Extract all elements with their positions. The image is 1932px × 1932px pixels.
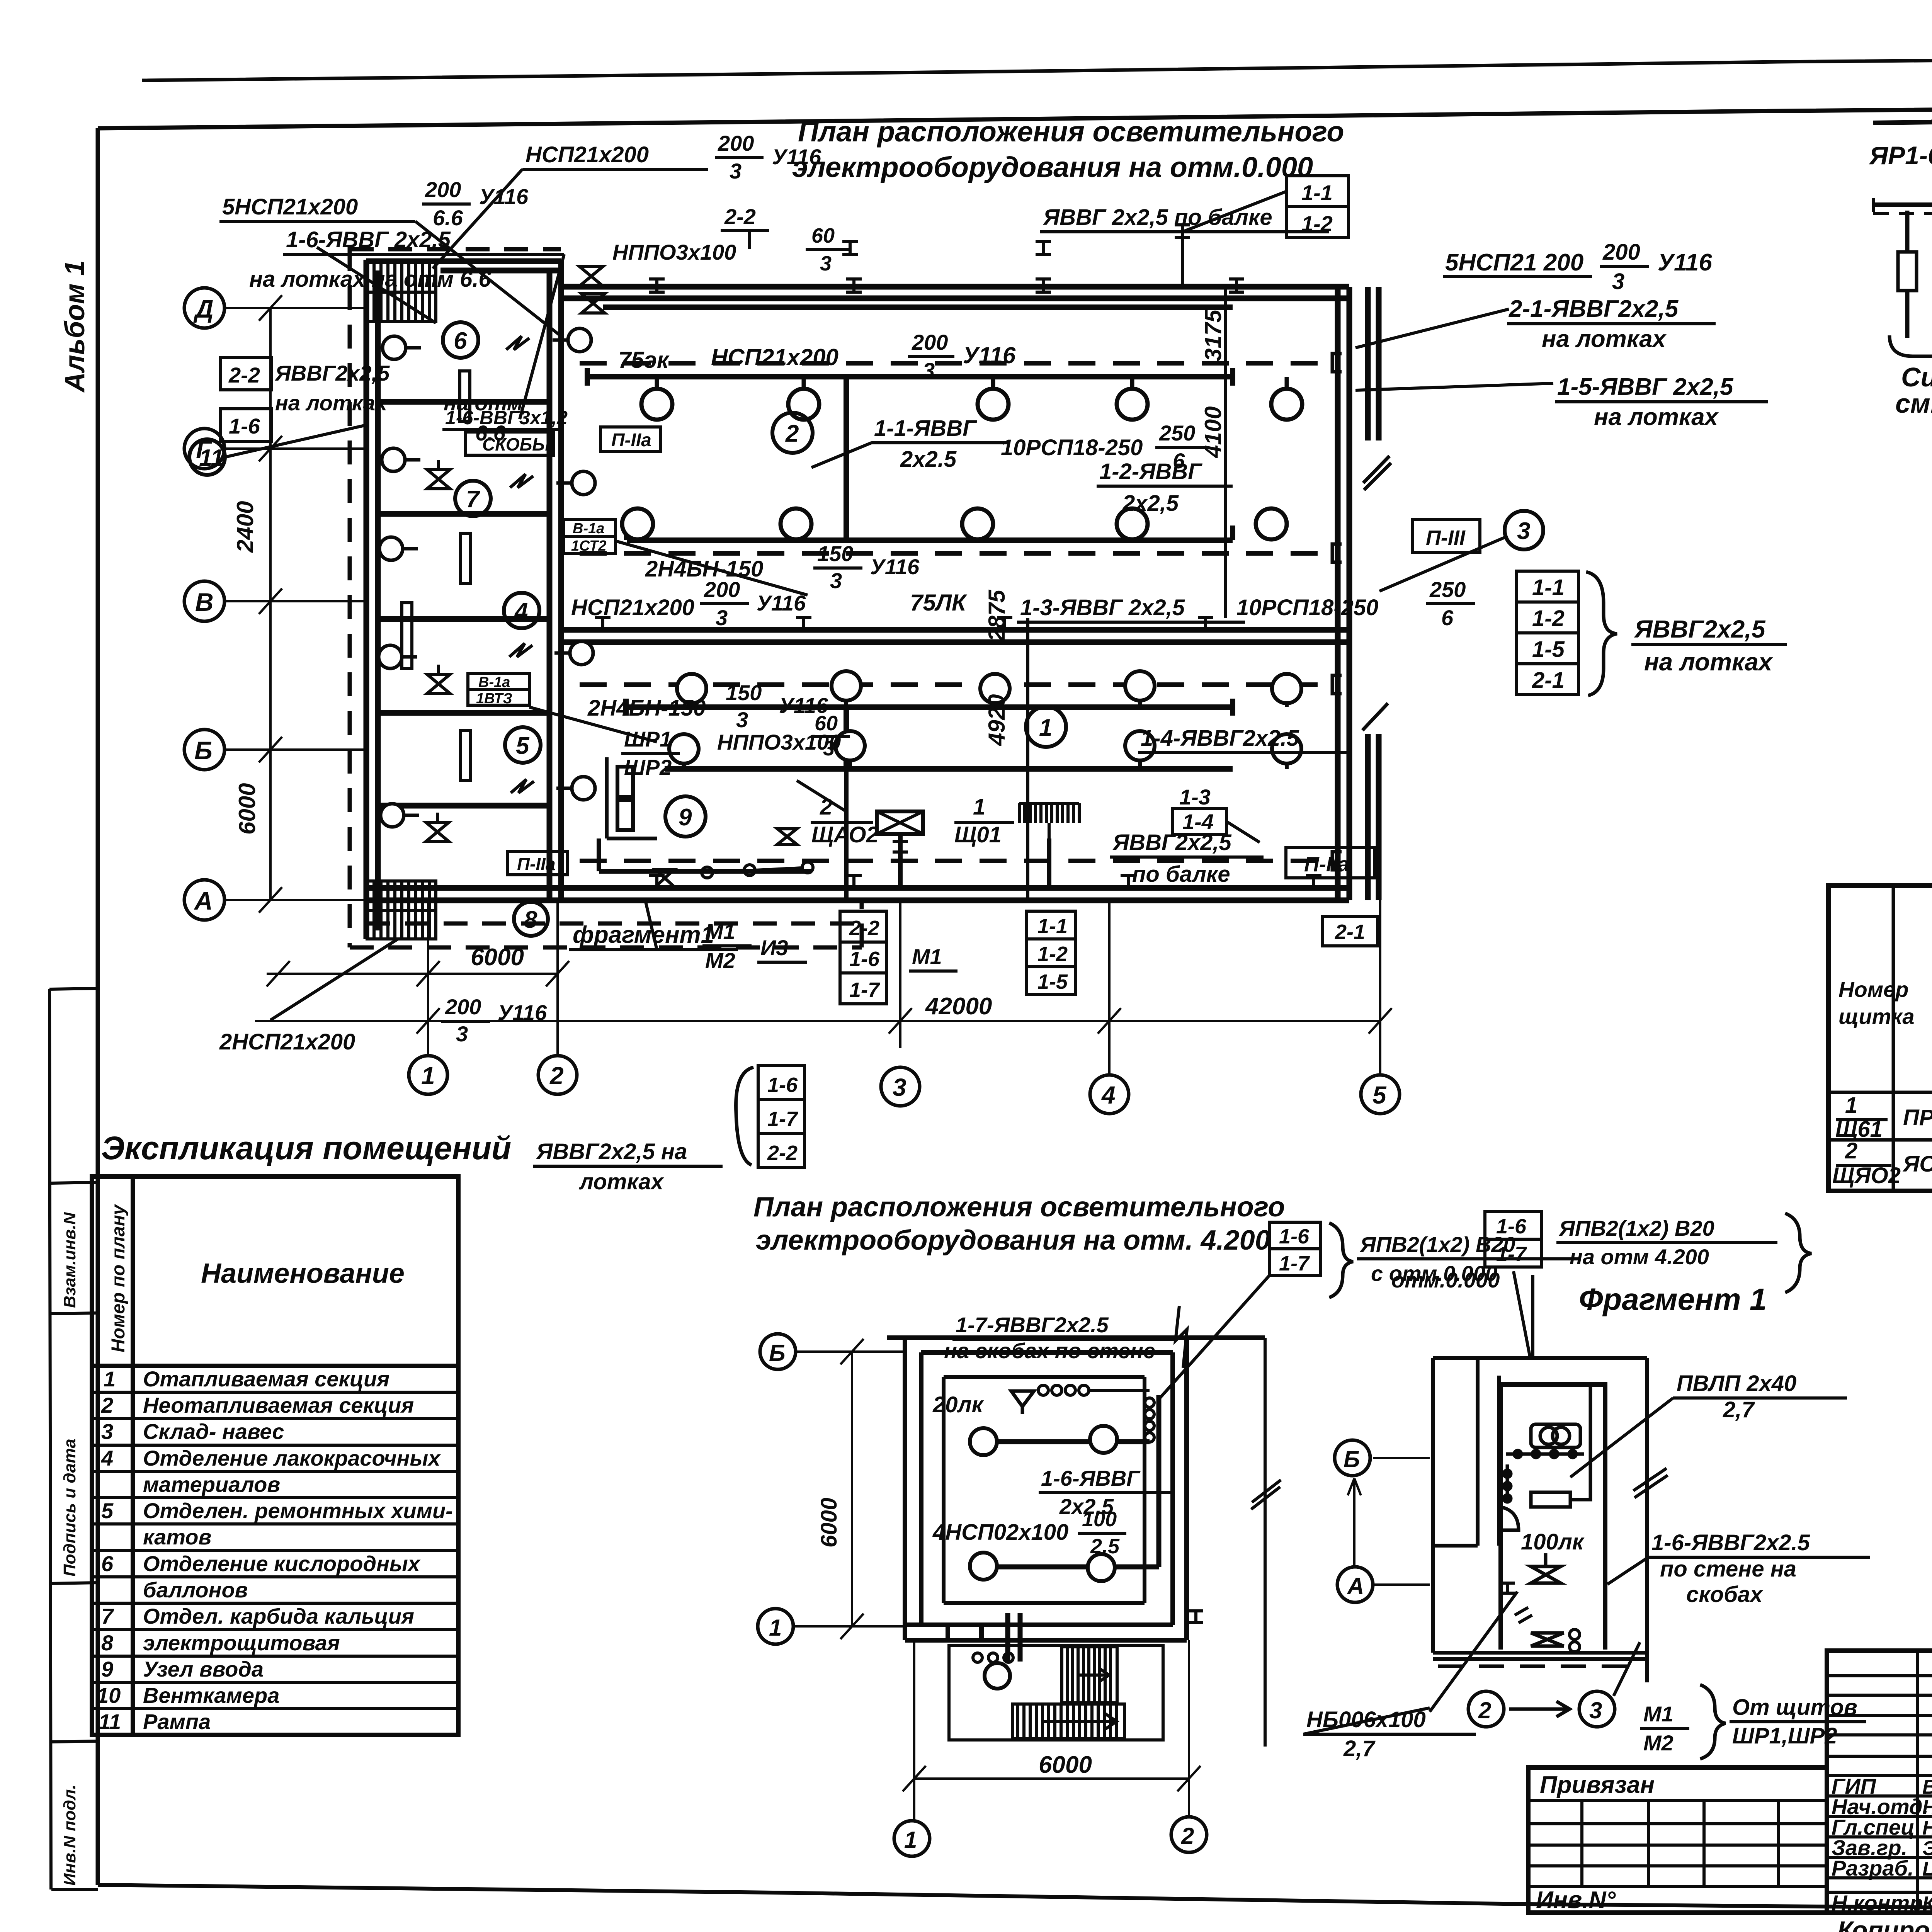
svg-text:материалов: материалов [143,1472,280,1497]
svg-text:1-6: 1-6 [767,1073,798,1097]
П-боксы in hall [600,427,661,451]
svg-text:НСП21х200: НСП21х200 [571,595,694,620]
svg-text:2: 2 [1181,1823,1194,1849]
svg-text:В-1а: В-1а [573,520,604,537]
svg-text:1: 1 [1039,714,1052,741]
svg-text:Щ61: Щ61 [1835,1117,1883,1142]
svg-text:ЯПВ2(1х2) В20: ЯПВ2(1х2) В20 [1558,1216,1714,1240]
svg-text:1-3: 1-3 [1179,785,1211,809]
svg-text:3: 3 [923,358,935,383]
svg-text:1-4-ЯВВГ2х2.5: 1-4-ЯВВГ2х2.5 [1141,726,1299,751]
leader from 1-6/1-7 to room [1159,1275,1270,1399]
svg-text:1: 1 [1845,1093,1857,1118]
svg-text:8: 8 [524,906,537,933]
svg-text:ЯВВГ2х2,5: ЯВВГ2х2,5 [1634,615,1766,643]
svg-text:150: 150 [817,541,853,566]
strip lamps on wall [379,328,595,827]
svg-text:Номер: Номер [1838,977,1908,1002]
svg-text:1-7-ЯВВГ2х2.5: 1-7-ЯВВГ2х2.5 [956,1313,1109,1337]
inner room thick wiring [997,1395,1159,1662]
hatched blocks top-left / bottom-left (stairs) [367,263,436,939]
vertical dim axes in hall [1028,287,1226,900]
lamps [970,1426,1117,1689]
svg-text:А: А [194,886,213,915]
svg-text:250: 250 [1159,421,1195,445]
svg-text:5НСП21 200: 5НСП21 200 [1445,249,1583,276]
svg-text:Узел ввода: Узел ввода [143,1657,264,1681]
svg-text:6: 6 [454,328,467,354]
svg-text:1-7: 1-7 [1279,1252,1310,1275]
inner equipment box [1501,1384,1605,1650]
svg-text:П-III: П-III [1426,526,1466,549]
svg-text:200: 200 [718,131,754,155]
svg-text:Силовые нагрузки: Силовые нагрузки [1901,362,1932,392]
svg-text:М1: М1 [912,944,942,969]
bottom dashed [1438,1665,1640,1668]
svg-text:ЯВВГ2х2,5 на: ЯВВГ2х2,5 на [536,1139,687,1164]
svg-text:Неотапливаемая секция: Неотапливаемая секция [143,1393,414,1417]
svg-text:3: 3 [823,737,835,760]
svg-text:отм.0.000: отм.0.000 [1391,1268,1500,1292]
svg-text:НСП21х200: НСП21х200 [711,344,838,370]
svg-text:60: 60 [815,712,838,735]
svg-text:План расположения осветитель: План расположения осветительного [798,116,1344,148]
svg-text:6.6: 6.6 [475,421,506,445]
rampa dashed outline [350,247,862,947]
right break [1633,1468,1668,1498]
svg-text:5НСП21х200: 5НСП21х200 [222,194,358,219]
svg-text:1-1-ЯВВГ: 1-1-ЯВВГ [874,416,977,441]
svg-text:1-6-ЯВВГ2х2.5: 1-6-ЯВВГ2х2.5 [1651,1530,1810,1555]
svg-text:Рампа: Рампа [143,1709,211,1734]
svg-text:1-6: 1-6 [1496,1215,1527,1238]
break marks right [1362,456,1391,730]
svg-text:ПВЛП 2х40: ПВЛП 2х40 [1677,1371,1796,1396]
svg-text:электрооборудования на отм. 4: электрооборудования на отм. 4.200 [756,1225,1270,1256]
svg-text:Инв.N°: Инв.N° [1536,1887,1616,1913]
strip right wall [549,261,561,900]
svg-text:2,7: 2,7 [1723,1397,1755,1422]
svg-text:Разраб.: Разраб. [1832,1856,1914,1880]
svg-text:ЯПВ2(1х2) В20: ЯПВ2(1х2) В20 [1359,1232,1515,1257]
label cluster right of title [1270,1222,1320,1276]
svg-text:7: 7 [101,1604,114,1628]
svg-text:на скобах по стене: на скобах по стене [944,1338,1155,1363]
vertical rect fixtures in strip [402,371,471,781]
middle signature grid [1827,1676,1932,1892]
svg-text:2-2: 2-2 [767,1141,798,1165]
svg-text:У116: У116 [757,591,806,615]
svg-text:2,7: 2,7 [1343,1736,1376,1761]
svg-text:60: 60 [811,224,835,247]
svg-text:см. чертежи марки: см. чертежи марки [1895,388,1932,418]
svg-text:1: 1 [904,1827,917,1853]
svg-text:У116: У116 [963,342,1016,368]
svg-text:ЯВВГ2х2,5: ЯВВГ2х2,5 [1112,830,1232,855]
svg-text:электрооборудования на отм.0.: электрооборудования на отм.0.000 [792,151,1313,183]
svg-text:Номер по плану: Номер по плану [108,1204,129,1352]
left strip outer wall [366,260,378,939]
svg-text:6000: 6000 [1039,1752,1092,1778]
I-beam ticks along walls [595,279,1321,888]
svg-text:2: 2 [785,420,799,447]
svg-text:100лк: 100лк [1521,1529,1585,1554]
svg-text:Г: Г [196,435,213,464]
grid circles [758,1334,1373,1856]
svg-text:Подпись и дата: Подпись и дата [60,1439,79,1577]
svg-text:В-1а: В-1а [478,674,510,690]
svg-text:щитка: щитка [1838,1004,1915,1029]
svg-text:Б: Б [769,1340,785,1366]
svg-text:на лотках: на лотках [1644,648,1773,676]
paper edge top [142,54,1932,80]
svg-text:Наименование: Наименование [201,1258,405,1289]
svg-text:ШР1: ШР1 [624,727,672,751]
svg-text:75эк: 75эк [618,347,670,373]
svg-text:2: 2 [1478,1697,1491,1723]
svg-text:ШР2: ШР2 [624,755,672,779]
svg-text:75ЛК: 75ЛК [910,590,968,616]
bottom panels [777,829,797,844]
svg-text:Отделение кислородных: Отделение кислородных [143,1551,421,1576]
svg-text:3: 3 [716,605,728,630]
building walls [366,260,1379,939]
svg-text:1-3-ЯВВГ 2х2,5: 1-3-ЯВВГ 2х2,5 [1020,595,1185,620]
svg-text:1-6: 1-6 [849,947,880,971]
svg-text:Венткамера: Венткамера [143,1683,279,1708]
label cluster left of schematic [1355,240,1787,696]
svg-text:на отм 4.200: на отм 4.200 [1570,1245,1709,1269]
svg-text:2-2: 2-2 [724,204,756,229]
svg-text:1: 1 [421,1062,435,1090]
brace: ШР1 power loads group [1889,335,1932,367]
svg-text:200: 200 [704,577,740,602]
svg-text:ЯВВГ2х2,5: ЯВВГ2х2,5 [274,361,390,385]
svg-text:2400: 2400 [232,501,258,553]
leader from НБ label [1430,1592,1517,1712]
svg-text:Б: Б [1344,1446,1360,1472]
svg-text:электрощитовая: электрощитовая [143,1631,340,1655]
svg-text:Щ01: Щ01 [954,822,1002,847]
svg-text:на лотках: на лотках [275,391,388,415]
right wall [1338,287,1349,900]
svg-text:Фрагмент 1: Фрагмент 1 [1579,1282,1767,1316]
mid wall [561,630,1349,642]
section 1 wires and lamps [626,699,1233,769]
svg-text:1-7: 1-7 [849,978,881,1002]
svg-text:на лотках: на лотках [1542,326,1667,352]
svg-text:Альбом 1: Альбом 1 [60,260,90,393]
svg-text:лотках: лотках [578,1169,665,1194]
svg-text:Отдел. карбида кальция: Отдел. карбида кальция [143,1604,414,1628]
svg-text:3: 3 [1589,1697,1602,1723]
svg-text:10РСП18-250: 10РСП18-250 [1001,435,1143,460]
bottom small symbols: bowties, circles [656,862,813,886]
panel with two circles [1501,1384,1590,1530]
svg-text:М1: М1 [705,919,735,944]
svg-text:Привязан: Привязан [1540,1772,1655,1798]
svg-text:ЯОУ8501- 54УЗ: ЯОУ8501- 54УЗ [1902,1151,1932,1177]
svg-text:1-2: 1-2 [1532,606,1565,631]
svg-text:3175: 3175 [1200,309,1226,361]
svg-text:ЯР1-63: ЯР1-63 [1869,141,1932,170]
svg-text:1-5: 1-5 [1037,970,1068,993]
svg-text:Нижник: Нижник [1922,1796,1932,1819]
strip room dividers [378,402,549,806]
svg-text:200: 200 [1602,240,1640,265]
fuses: seven ШР1 branch fuses [1898,252,1932,291]
busbar ШР1 (ШР11-73701-22УЗ) [1873,202,1932,207]
switch zigzags in strip [506,336,534,793]
svg-text:6: 6 [101,1551,114,1576]
svg-text:3: 3 [820,252,832,275]
svg-text:Котенко: Котенко [1922,1893,1932,1915]
svg-text:4НСП02х100: 4НСП02х100 [932,1520,1068,1545]
svg-text:1-2: 1-2 [1037,942,1068,966]
svg-text:8: 8 [101,1631,114,1655]
svg-text:по балке: по балке [1132,862,1230,887]
valves [1531,1553,1561,1583]
svg-text:2.5: 2.5 [1090,1535,1120,1558]
svg-text:10РСП18-250: 10РСП18-250 [1236,595,1378,620]
svg-text:Склад- навес: Склад- навес [143,1419,284,1444]
svg-text:1: 1 [104,1367,116,1391]
svg-text:2: 2 [1845,1138,1857,1163]
svg-text:П-IIа: П-IIа [1304,853,1349,876]
svg-text:От щитов: От щитов [1732,1695,1857,1720]
svg-text:1-6-ЯВВГ 2х2,5: 1-6-ЯВВГ 2х2,5 [286,227,451,252]
svg-text:3: 3 [101,1419,113,1444]
svg-text:У116: У116 [1658,249,1712,276]
svg-text:10: 10 [97,1683,121,1708]
svg-text:6: 6 [1441,605,1454,630]
svg-text:баллонов: баллонов [143,1578,248,1602]
dashed line end brackets [1332,354,1342,870]
leader diagonals [317,247,436,323]
hall top wall double [561,287,1349,298]
svg-text:42000: 42000 [925,993,992,1020]
svg-text:3: 3 [830,568,842,593]
svg-text:1-2-ЯВВГ: 1-2-ЯВВГ [1099,459,1202,484]
svg-text:20лк: 20лк [932,1392,984,1417]
svg-text:4: 4 [101,1446,113,1470]
svg-text:на лотках: на лотках [1594,404,1719,430]
svg-text:2: 2 [549,1062,564,1090]
svg-text:6.6: 6.6 [433,206,463,230]
svg-text:У116: У116 [498,1000,547,1025]
box stack 1-1/1-2/1-5/2-1 with brace [1517,571,1578,695]
svg-text:на лотках на отм 6.6: на лотках на отм 6.6 [249,267,491,292]
svg-text:200: 200 [445,995,481,1019]
svg-text:1ВТЗ: 1ВТЗ [476,690,512,707]
walls [1433,1358,1647,1682]
svg-text:А: А [1347,1573,1364,1599]
bottom wall [366,888,1349,900]
svg-text:100: 100 [1082,1508,1117,1531]
svg-text:2: 2 [101,1393,113,1417]
svg-text:ПР11-3052-54УЗ: ПР11-3052-54УЗ [1903,1105,1932,1130]
svg-text:3: 3 [736,707,748,732]
svg-text:6: 6 [1173,449,1185,473]
wires: seven ШР1 branch circuits [1907,211,1932,338]
svg-text:2-1: 2-1 [1335,920,1365,944]
svg-text:9: 9 [101,1657,113,1681]
svg-text:У116: У116 [870,554,920,579]
svg-text:3: 3 [730,159,742,183]
svg-text:Отапливаемая секция: Отапливаемая секция [143,1367,389,1391]
svg-text:катов: катов [143,1525,211,1549]
svg-text:6000: 6000 [816,1498,842,1548]
left appendix rows/cols [1528,1801,1827,1886]
svg-text:2НСП21х200: 2НСП21х200 [219,1029,355,1054]
strip top [366,261,561,270]
hall dashed group lines [580,363,1333,861]
svg-text:1-1: 1-1 [1532,575,1565,600]
svg-text:2-2: 2-2 [228,363,260,387]
svg-text:М1: М1 [1643,1702,1673,1726]
svg-text:Ценяк: Ценяк [1922,1858,1932,1880]
svg-text:Отделен. ремонтных хими-: Отделен. ремонтных хими- [143,1498,453,1523]
hatched panel Щ01 comb [1019,803,1079,838]
svg-text:11: 11 [99,1709,121,1734]
svg-text:1-6-ЯВВГ: 1-6-ЯВВГ [1041,1466,1141,1490]
bottom circles and arrow [1468,1691,1615,1727]
svg-text:2-2: 2-2 [849,917,879,940]
svg-text:150: 150 [726,680,762,705]
svg-text:1: 1 [973,794,985,820]
svg-text:6000: 6000 [234,783,260,835]
uzel vvoda cabinets [607,757,657,838]
svg-text:И3: И3 [760,935,788,960]
svg-text:У116: У116 [772,145,821,169]
fragment top label cluster [1485,1211,1542,1267]
svg-text:скобах: скобах [1686,1582,1764,1607]
svg-text:Н.контр.: Н.контр. [1832,1891,1929,1915]
svg-text:3: 3 [1517,518,1530,544]
svg-text:2х2,5: 2х2,5 [1122,491,1179,516]
svg-text:Б: Б [194,736,213,765]
svg-text:Экспликация помещений: Экспликация помещений [101,1130,511,1166]
svg-text:НППО3х100: НППО3х100 [612,240,736,264]
svg-text:НСП21х200: НСП21х200 [526,142,649,167]
bottom column axes [255,900,1392,1075]
svg-text:Копировал: Чистоклет: Копировал: Чистоклет [1837,1916,1932,1932]
svg-text:1СТ2: 1СТ2 [571,538,606,554]
svg-text:1-1: 1-1 [1037,915,1068,938]
inner frame [98,104,1932,128]
svg-text:200: 200 [912,330,948,354]
bowtie valves in strip [426,460,450,842]
svg-text:4: 4 [1101,1081,1116,1109]
svg-text:4920: 4920 [984,694,1010,746]
funnel + hook circles [1011,1391,1034,1414]
svg-text:1-5: 1-5 [1532,637,1565,662]
left margin column [49,988,98,1889]
svg-text:Нозратенко: Нозратенко [1922,1817,1932,1839]
svg-text:1-1: 1-1 [1301,180,1333,205]
svg-text:9: 9 [679,804,692,831]
svg-text:М2: М2 [705,948,735,973]
svg-text:6000: 6000 [471,944,524,971]
svg-text:1-6: 1-6 [1279,1225,1310,1248]
svg-text:1-6: 1-6 [229,414,260,438]
section 2 wires and lamps [587,307,1233,540]
svg-text:П-IIа: П-IIа [517,854,556,874]
svg-text:План расположения осветител: План расположения осветительного [753,1192,1285,1223]
svg-text:фрагмент1: фрагмент1 [573,922,714,948]
svg-text:2Н4БН-150: 2Н4БН-150 [587,696,706,721]
svg-text:5: 5 [1372,1081,1387,1109]
svg-text:М2: М2 [1643,1731,1673,1755]
svg-text:2875: 2875 [984,589,1010,642]
svg-text:5: 5 [516,733,530,759]
room number circles [189,322,1543,936]
svg-text:Взам.инв.N: Взам.инв.N [60,1212,79,1308]
svg-text:Д: Д [193,294,214,323]
svg-text:5: 5 [101,1498,114,1523]
stairs block [949,1646,1163,1740]
left 2-2 labels [220,357,271,390]
grid circles and leaders [184,288,224,920]
svg-text:1-2: 1-2 [1301,211,1333,236]
top-left strip cable symbols [580,230,750,313]
svg-text:Отделение лакокрасочных: Отделение лакокрасочных [143,1446,441,1470]
walls [887,1338,1265,1640]
svg-text:4100: 4100 [1200,406,1226,458]
svg-text:3: 3 [456,1022,468,1046]
svg-text:1: 1 [769,1615,782,1641]
svg-text:1-7: 1-7 [1496,1243,1527,1266]
svg-text:2-1: 2-1 [1532,668,1565,693]
svg-text:250: 250 [1429,577,1466,602]
wire: ШР1 supply from mains [1873,92,1932,136]
svg-text:7: 7 [466,486,480,513]
svg-text:200: 200 [425,177,461,202]
svg-text:1-7: 1-7 [767,1107,799,1131]
svg-text:ШР1,ШР2: ШР1,ШР2 [1732,1723,1837,1748]
svg-text:ЩЯО2: ЩЯО2 [1832,1163,1901,1188]
svg-text:по стене на: по стене на [1660,1556,1796,1582]
svg-text:ЯВВГ 2х2,5 по балке: ЯВВГ 2х2,5 по балке [1043,205,1272,230]
svg-text:2-1-ЯВВГ2х2,5: 2-1-ЯВВГ2х2,5 [1509,296,1679,322]
svg-text:В: В [195,588,214,616]
svg-text:3: 3 [893,1073,906,1101]
svg-text:2х2.5: 2х2.5 [900,447,957,472]
right axis line + break [1251,1338,1281,1747]
svg-text:3: 3 [1612,269,1624,294]
far right partial [1368,287,1379,900]
svg-text:на отм: на отм [444,391,523,415]
svg-text:Эйбер: Эйбер [1922,1837,1932,1860]
svg-text:4: 4 [514,598,528,625]
leader from boxes to room [1514,1271,1533,1358]
svg-text:П-IIа: П-IIа [611,430,651,451]
svg-text:1-5-ЯВВГ 2х2,5: 1-5-ЯВВГ 2х2,5 [1557,374,1734,400]
I-beam ticks on upper dashed tray [842,225,1190,254]
bottom wires [599,769,1049,900]
svg-text:Инв.N подл.: Инв.N подл. [60,1784,79,1886]
